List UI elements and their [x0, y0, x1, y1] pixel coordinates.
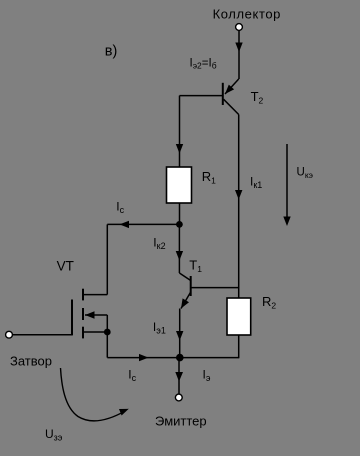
wire collector rail to R2 [238, 288, 240, 298]
transistor T2 emitter lead [225, 79, 239, 94]
mosfet VT drain wire [83, 294, 107, 296]
transistor T1 emitter lead [181, 292, 191, 309]
resistor R2 [227, 298, 251, 335]
svg-text:VT: VT [57, 259, 74, 274]
terminal Коллектор [236, 24, 243, 31]
transistor T1 base bar [190, 276, 192, 296]
voltage arrow Uкэ [283, 144, 290, 226]
wire collector terminal to T2 emitter [235, 31, 242, 79]
mosfet VT channel segment bottom [82, 327, 84, 339]
node source-body junction [104, 329, 111, 336]
wire R1 bottom to node [179, 203, 181, 224]
wire T1 collector vertical [176, 224, 191, 280]
svg-text:в): в) [105, 43, 118, 59]
mosfet VT gate bar [71, 300, 73, 336]
wire R2 bottom to rail [238, 335, 240, 358]
node emitter junction [176, 354, 184, 362]
wire VT source down [106, 332, 108, 358]
mosfet VT source wire [83, 331, 107, 333]
wire T2 base to R1 branch [180, 95, 223, 97]
resistor R1 [167, 167, 192, 203]
svg-text:Эмиттер: Эмиттер [155, 414, 207, 429]
wire T1 base to collector rail [191, 287, 239, 289]
transistor T2 base bar [222, 83, 224, 105]
wire T1 emitter vertical Iэ1 [176, 309, 183, 358]
svg-text:Коллектор: Коллектор [213, 6, 281, 21]
wire left branch vertical to VT drain [106, 224, 108, 294]
transistor T2 collector lead [224, 99, 239, 114]
wire R1 branch vertical [176, 96, 183, 167]
mosfet VT body wire with arrow [85, 311, 107, 332]
wire T2 collector rail [235, 115, 242, 289]
voltage arrow Uзэ curved [61, 368, 129, 421]
node junction below R1 [176, 221, 183, 228]
wire bottom rail [107, 354, 238, 361]
svg-text:Затвор: Затвор [10, 354, 52, 369]
terminal Эмиттер [175, 394, 182, 401]
mosfet VT channel segment middle [82, 308, 84, 320]
terminal Затвор [6, 331, 13, 338]
wire Iс horizontal [107, 221, 179, 228]
wire emitter lead down [175, 358, 183, 394]
mosfet VT channel segment top [82, 289, 84, 301]
wire gate terminal to VT gate [13, 334, 72, 336]
